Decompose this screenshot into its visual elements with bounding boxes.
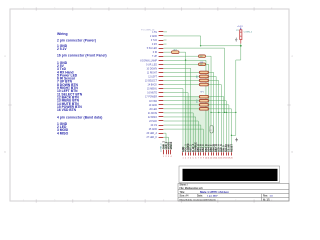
svg-text:CONN_2: CONN_2 bbox=[244, 32, 253, 34]
display connector J3 pin labels (rotated) bbox=[182, 142, 233, 152]
wire: bank1 input 4 bbox=[164, 84, 200, 86]
ground symbol (bottom right) bbox=[235, 138, 238, 142]
svg-text:16 MUTE: 16 MUTE bbox=[147, 93, 157, 95]
svg-text:16 VSD BTN: 16 VSD BTN bbox=[57, 108, 77, 112]
svg-text:18 VSD: 18 VSD bbox=[149, 101, 157, 103]
svg-text:25 GND: 25 GND bbox=[149, 129, 158, 131]
wire: row20 to pin4 bbox=[164, 113, 194, 152]
svg-text:5: 5 bbox=[193, 157, 194, 159]
svg-text:4 pin connector (Band data): 4 pin connector (Band data) bbox=[57, 116, 102, 120]
wire: bank1 output 2 bbox=[209, 76, 217, 152]
svg-text:21 MOSI: 21 MOSI bbox=[148, 113, 157, 115]
svg-text:9 UP_LED: 9 UP_LED bbox=[146, 64, 157, 66]
svg-text:26 LED_A: 26 LED_A bbox=[147, 132, 158, 135]
wire: pin1 stub bbox=[164, 31, 168, 33]
wire: bank1 input 1 bbox=[164, 71, 200, 73]
wire: row24 to pin8 bbox=[164, 129, 204, 152]
wire: bank2 output 3 bbox=[209, 105, 229, 152]
svg-text:19 GND: 19 GND bbox=[149, 105, 158, 107]
svg-text:3: 3 bbox=[168, 156, 169, 158]
wire: bank1 output 4 bbox=[209, 85, 222, 152]
svg-text:10 DOWN: 10 DOWN bbox=[147, 68, 158, 70]
svg-text:16 pin connector (Front Panel): 16 pin connector (Front Panel) bbox=[57, 54, 107, 58]
svg-text:4 RX: 4 RX bbox=[152, 44, 158, 46]
svg-text:1: 1 bbox=[163, 156, 164, 158]
svg-text:Id: 1/1: Id: 1/1 bbox=[263, 199, 270, 201]
wire: row26 to aux pin3 bbox=[164, 137, 169, 149]
connector P2 bbox=[240, 30, 242, 40]
svg-text:C2: C2 bbox=[209, 130, 211, 132]
svg-text:1: 1 bbox=[182, 157, 183, 159]
wire: bank1 input 2 bbox=[164, 75, 200, 77]
svg-text:8 DOWN_LAMP: 8 DOWN_LAMP bbox=[140, 59, 157, 62]
wire: bank2 input 4 bbox=[164, 108, 200, 110]
wire: row2 stub bbox=[164, 39, 167, 41]
power symbol +5.1V bbox=[237, 26, 243, 28]
svg-text:5 Pw LED: 5 Pw LED bbox=[147, 48, 158, 50]
svg-text:MISO2: MISO2 bbox=[170, 141, 173, 149]
resistor R3 (horizontal) bbox=[199, 63, 206, 66]
connector P1 pins (left column): blue net labels + red pin stubs bbox=[140, 32, 157, 139]
svg-text:9: 9 bbox=[203, 157, 204, 159]
wire: aux risers bbox=[163, 144, 165, 150]
display module DS1 black glass bbox=[183, 169, 278, 181]
wire: row15 to pin2 bbox=[164, 93, 189, 152]
wire: 5V net riser to power connector bbox=[164, 36, 241, 46]
display connector J3 pin stubs bbox=[182, 152, 232, 155]
svg-text:1 jun 2007: 1 jun 2007 bbox=[207, 196, 218, 198]
aux connector J2 pin labels (rotated) bbox=[163, 141, 174, 150]
svg-text:1 5V: 1 5V bbox=[152, 32, 157, 34]
aux connector J2 pin numbers bbox=[163, 156, 172, 158]
wire: row8 through R3 to pin10 riser bbox=[164, 63, 199, 65]
svg-text:3: 3 bbox=[188, 157, 189, 159]
svg-text:Rev:: Rev: bbox=[263, 196, 268, 198]
wire: row6 through R2 to spine bbox=[164, 55, 199, 57]
svg-text:KiCad E.D.A. eeschema (2007-0: KiCad E.D.A. eeschema (2007-06-01) bbox=[180, 198, 216, 201]
svg-text:23 SCK: 23 SCK bbox=[149, 121, 157, 123]
wire: row7 to pin9 bbox=[164, 60, 206, 152]
svg-text:P1 CONN_26: P1 CONN_26 bbox=[141, 29, 155, 31]
notes text: wiring table bbox=[57, 32, 107, 135]
svg-text:4: 4 bbox=[170, 156, 171, 158]
svg-text:8: 8 bbox=[200, 157, 201, 159]
wire: row22 to pin6 bbox=[164, 121, 199, 152]
svg-text:+5.1V: +5.1V bbox=[237, 26, 243, 28]
svg-text:Date:: Date: bbox=[197, 195, 203, 198]
svg-text:17 POWER: 17 POWER bbox=[145, 97, 157, 99]
svg-text:14 BACK: 14 BACK bbox=[148, 84, 158, 87]
wire: bank1 output 3 bbox=[209, 81, 219, 153]
display module DS1 outline bbox=[179, 166, 280, 183]
wire: power connector drop bbox=[240, 44, 242, 46]
svg-text:Male 1 HTPC vfd-box: Male 1 HTPC vfd-box bbox=[200, 190, 229, 194]
capacitor C2 bbox=[210, 126, 213, 134]
wire: long row4 net bbox=[164, 48, 225, 112]
svg-text:7 UP: 7 UP bbox=[152, 56, 158, 58]
svg-text:12 LEFT: 12 LEFT bbox=[148, 76, 157, 78]
wire: bank2 input 3 bbox=[164, 104, 200, 106]
svg-text:27 LED_K: 27 LED_K bbox=[147, 137, 158, 139]
wire: bank2 output 1 bbox=[209, 97, 224, 152]
wire: bank1 output 1 bbox=[209, 72, 214, 152]
wire: row23 to pin7 bbox=[164, 125, 201, 152]
aux connector J2 pin stubs bbox=[163, 150, 171, 155]
svg-text:2 5.1V: 2 5.1V bbox=[57, 47, 67, 51]
svg-text:20: 20 bbox=[230, 157, 232, 159]
wire: bank2 output 4 bbox=[209, 109, 232, 152]
wire: row5 through R1 to pin1 bbox=[164, 51, 172, 53]
svg-text:11 RIGHT: 11 RIGHT bbox=[147, 72, 158, 74]
svg-text:15 MENU: 15 MENU bbox=[147, 89, 157, 91]
resistor R2 (horizontal) bbox=[199, 55, 206, 58]
wire: pin11 riser from R2 bbox=[210, 56, 212, 152]
frame zone labels bbox=[4, 7, 293, 202]
resistor R1 (horizontal) bbox=[172, 51, 180, 54]
svg-text:Size: A4: Size: A4 bbox=[180, 195, 190, 198]
wire: right net joins pin19 bbox=[231, 134, 235, 136]
svg-text:13 SELECT: 13 SELECT bbox=[145, 81, 158, 83]
svg-text:4: 4 bbox=[190, 157, 191, 159]
junction dots bbox=[185, 45, 242, 136]
wire: row14 to pin0 bbox=[164, 89, 184, 152]
svg-text:Sheet: /: Sheet: / bbox=[180, 184, 189, 187]
wire: row9 to pin3 bbox=[164, 68, 191, 152]
svg-text:Wiring: Wiring bbox=[57, 32, 68, 36]
svg-text:2: 2 bbox=[185, 157, 186, 159]
wire: right-hand drop net bbox=[236, 46, 241, 136]
svg-text:RESET: RESET bbox=[230, 143, 233, 152]
title block bbox=[178, 184, 289, 202]
svg-text:Title:: Title: bbox=[180, 191, 186, 194]
wire: row21 to pin5 bbox=[164, 117, 196, 152]
svg-text:2 GND: 2 GND bbox=[150, 36, 157, 38]
svg-text:3 TxD: 3 TxD bbox=[151, 40, 157, 42]
svg-text:6 IR: 6 IR bbox=[153, 52, 158, 54]
svg-text:24 CS: 24 CS bbox=[151, 125, 158, 127]
resistor pack RP1 bbox=[199, 71, 208, 86]
wire: row3 stub bbox=[164, 43, 167, 45]
wire: bank2 output 2 bbox=[209, 101, 227, 152]
sheet border frame bbox=[9, 8, 291, 203]
svg-text:20 LED: 20 LED bbox=[149, 109, 157, 111]
resistor pack RP2 bbox=[199, 95, 208, 110]
wire: row25 to aux pin2 bbox=[164, 133, 167, 149]
svg-text:22 MISO: 22 MISO bbox=[148, 117, 157, 119]
svg-text:2: 2 bbox=[165, 156, 166, 158]
svg-text:4 MISO: 4 MISO bbox=[57, 131, 69, 135]
wire net: pale bundle shading bbox=[185, 58, 212, 98]
svg-text:7: 7 bbox=[198, 157, 199, 159]
wire: bank2 input 2 bbox=[164, 100, 200, 102]
wire: tee into bus spine bbox=[211, 111, 236, 113]
display connector J3 pin numbers bbox=[182, 157, 232, 159]
svg-text:2 pin connector (Power): 2 pin connector (Power) bbox=[57, 38, 96, 42]
wire: bank2 input 1 bbox=[164, 96, 200, 98]
svg-text:6: 6 bbox=[195, 157, 196, 159]
wire: bank1 input 3 bbox=[164, 80, 200, 82]
ground symbol bbox=[235, 38, 237, 42]
